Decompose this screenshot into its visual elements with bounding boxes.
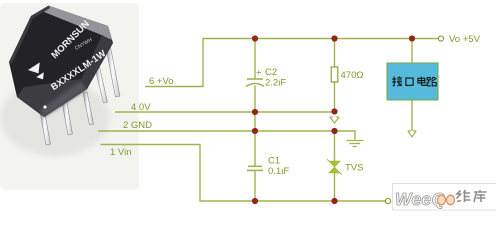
svg-text:6 +Vo: 6 +Vo — [149, 76, 174, 87]
svg-text:+: + — [256, 68, 262, 79]
svg-text:2.2ιF: 2.2ιF — [265, 78, 286, 89]
svg-text:0.1ιF: 0.1ιF — [268, 166, 289, 177]
svg-text:C1: C1 — [268, 156, 280, 167]
svg-text:2 GND: 2 GND — [123, 120, 152, 131]
svg-text:C2: C2 — [265, 67, 277, 78]
svg-text:4 0V: 4 0V — [131, 102, 151, 113]
svg-text:1 Vin: 1 Vin — [110, 147, 131, 158]
svg-text:TVS: TVS — [345, 163, 363, 174]
svg-text:470Ω: 470Ω — [341, 70, 364, 81]
svg-text:Vo +5V: Vo +5V — [449, 34, 481, 45]
